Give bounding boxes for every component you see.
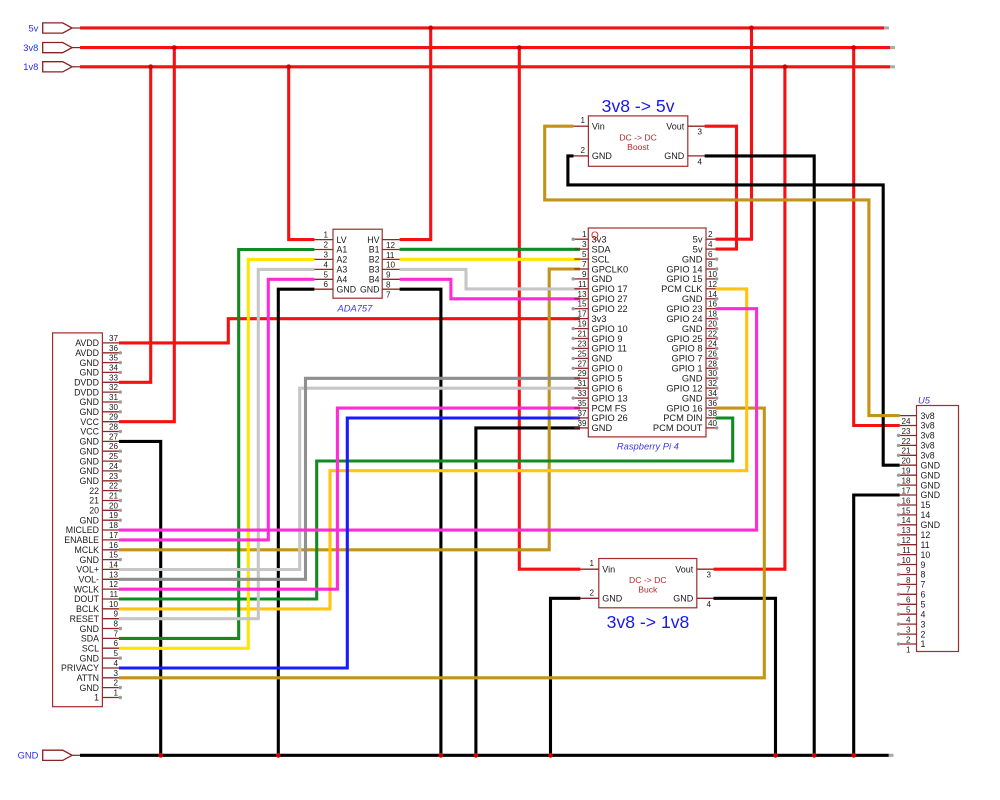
svg-text:2: 2: [906, 635, 911, 644]
svg-text:4: 4: [921, 609, 926, 619]
wire RPi GPIO 23 pin 16 to MICLED: [119, 309, 757, 530]
svg-text:3: 3: [582, 240, 587, 249]
svg-text:Vout: Vout: [666, 122, 685, 132]
wire ADA757 GND pin 7 to GND rail: [400, 289, 441, 755]
svg-text:3v8: 3v8: [921, 411, 935, 421]
svg-text:7: 7: [386, 291, 391, 300]
svg-text:GPIO 25: GPIO 25: [666, 334, 702, 344]
svg-text:18: 18: [901, 477, 911, 486]
svg-text:5: 5: [906, 606, 911, 615]
svg-text:3: 3: [707, 571, 712, 580]
svg-text:30: 30: [708, 369, 718, 378]
svg-text:2: 2: [708, 230, 713, 239]
wire ADA757 GND pin 6 to GND rail: [278, 289, 314, 755]
svg-text:4: 4: [113, 659, 118, 668]
svg-text:1v8: 1v8: [23, 62, 38, 72]
svg-text:MCLK: MCLK: [75, 545, 100, 555]
power symbol GND: [18, 750, 81, 760]
svg-text:1: 1: [582, 230, 587, 239]
svg-text:23: 23: [577, 339, 587, 348]
svg-text:GND: GND: [592, 423, 613, 433]
svg-text:Boost: Boost: [627, 142, 650, 152]
svg-text:5v: 5v: [28, 23, 38, 33]
svg-text:6: 6: [323, 280, 328, 289]
svg-text:5v: 5v: [693, 235, 703, 245]
svg-text:GND: GND: [79, 456, 99, 466]
svg-text:10: 10: [901, 556, 911, 565]
svg-text:13: 13: [109, 570, 119, 579]
svg-text:1: 1: [589, 559, 594, 568]
svg-text:37: 37: [577, 409, 587, 418]
svg-text:AVDD: AVDD: [75, 348, 99, 358]
svg-text:34: 34: [708, 389, 718, 398]
svg-text:PCM CLK: PCM CLK: [661, 284, 703, 294]
svg-text:19: 19: [109, 511, 119, 520]
svg-text:SDA: SDA: [592, 244, 612, 254]
svg-text:B4: B4: [369, 275, 380, 285]
svg-text:Vout: Vout: [675, 565, 694, 575]
svg-text:1: 1: [323, 231, 328, 240]
wire RPi GPIO 6 pin 31 to VOL+: [119, 388, 580, 569]
svg-text:27: 27: [577, 359, 587, 368]
wire 5v rail: [80, 26, 889, 29]
svg-text:3: 3: [113, 669, 118, 678]
svg-text:32: 32: [708, 379, 718, 388]
svg-text:28: 28: [708, 359, 718, 368]
svg-text:15: 15: [109, 551, 119, 560]
svg-text:3: 3: [323, 250, 328, 259]
wire ADA757 B2 to RPi SCL pin 5: [400, 258, 580, 261]
svg-text:33: 33: [577, 389, 587, 398]
svg-text:MICLED: MICLED: [66, 525, 99, 535]
wire ADA757 A3 to left connector RESET pin 9: [119, 269, 314, 618]
svg-text:GND: GND: [360, 284, 380, 294]
wire 5v to ADA757 HV pin 12: [400, 28, 431, 240]
svg-text:PRIVACY: PRIVACY: [61, 663, 99, 673]
svg-text:GND: GND: [682, 393, 703, 403]
wire AVDD to RPi 3v3 pin 17: [119, 319, 580, 343]
svg-text:GND: GND: [79, 683, 99, 693]
svg-text:PCM DIN: PCM DIN: [663, 413, 702, 423]
svg-text:GPIO 9: GPIO 9: [592, 334, 623, 344]
svg-text:15: 15: [901, 506, 911, 515]
svg-text:21: 21: [901, 447, 911, 456]
svg-text:GND: GND: [602, 594, 623, 604]
svg-text:2: 2: [323, 241, 328, 250]
wire 1v8 to buck Vout pin 3: [714, 67, 785, 569]
svg-text:GND: GND: [682, 374, 703, 384]
svg-text:22: 22: [901, 437, 911, 446]
svg-text:9: 9: [113, 610, 118, 619]
svg-text:2: 2: [113, 679, 118, 688]
svg-text:GPIO 23: GPIO 23: [666, 304, 702, 314]
svg-text:Buck: Buck: [638, 585, 658, 595]
svg-text:5: 5: [582, 250, 587, 259]
svg-text:20: 20: [901, 457, 911, 466]
svg-text:24: 24: [708, 339, 718, 348]
svg-text:ATTN: ATTN: [77, 673, 99, 683]
svg-text:3v3: 3v3: [592, 314, 607, 324]
svg-text:4: 4: [707, 600, 712, 609]
svg-text:11: 11: [110, 590, 119, 599]
svg-text:GND: GND: [79, 624, 99, 634]
svg-text:8: 8: [386, 281, 391, 290]
wire RPi PCM DIN pin 38 to DOUT: [119, 418, 733, 599]
svg-text:GND: GND: [79, 407, 99, 417]
svg-text:9: 9: [386, 271, 391, 280]
svg-text:12: 12: [901, 536, 911, 545]
svg-text:GND: GND: [79, 476, 99, 486]
svg-text:Raspberry Pi 4: Raspberry Pi 4: [617, 441, 679, 452]
svg-text:GND: GND: [921, 460, 941, 470]
svg-text:21: 21: [109, 492, 119, 501]
level shifter U? ADA757: [314, 229, 399, 313]
svg-text:7: 7: [906, 586, 911, 595]
connector J1 (microphone header, pins 1-37): [53, 333, 122, 707]
svg-text:GND: GND: [664, 151, 685, 161]
svg-text:14: 14: [708, 290, 718, 299]
svg-text:18: 18: [109, 521, 119, 530]
wire GND rail: [80, 754, 894, 757]
power symbol 3v8: [23, 43, 81, 53]
svg-text:25: 25: [577, 349, 587, 358]
svg-text:GND: GND: [79, 466, 99, 476]
svg-text:LV: LV: [337, 235, 347, 245]
svg-text:11: 11: [386, 251, 395, 260]
svg-text:12: 12: [921, 530, 931, 540]
wire 3v8 to U5 pin 23: [854, 48, 900, 426]
svg-text:SCL: SCL: [82, 644, 99, 654]
wire boost GND pin 4 to GND rail: [705, 156, 815, 755]
svg-text:40: 40: [708, 419, 718, 428]
svg-text:GPIO 22: GPIO 22: [592, 304, 628, 314]
svg-text:GND: GND: [592, 151, 613, 161]
svg-text:GPIO 14: GPIO 14: [666, 264, 702, 274]
svg-text:PCM DOUT: PCM DOUT: [653, 423, 703, 433]
svg-text:4: 4: [906, 616, 911, 625]
wire boost Vout to RPi pin 4: [705, 126, 737, 249]
svg-text:GND: GND: [921, 470, 941, 480]
svg-text:1: 1: [580, 116, 585, 125]
svg-text:26: 26: [109, 442, 119, 451]
svg-text:17: 17: [901, 486, 911, 495]
wire 1v8 to left connector DVDD pin 33: [119, 67, 151, 383]
svg-text:7: 7: [113, 629, 118, 638]
svg-text:DVDD: DVDD: [74, 378, 99, 388]
svg-text:6: 6: [113, 639, 118, 648]
svg-text:B2: B2: [369, 255, 380, 265]
svg-text:2: 2: [589, 588, 594, 597]
svg-text:GND: GND: [79, 653, 99, 663]
svg-text:21: 21: [89, 496, 99, 506]
svg-text:13: 13: [577, 290, 587, 299]
svg-text:GND: GND: [18, 751, 39, 761]
svg-text:26: 26: [708, 349, 718, 358]
Raspberry Pi 4 (40-pin header): [572, 228, 719, 452]
svg-text:20: 20: [89, 506, 99, 516]
svg-text:11: 11: [578, 280, 587, 289]
svg-text:4: 4: [708, 240, 713, 249]
svg-text:14: 14: [109, 560, 119, 569]
svg-text:25: 25: [109, 452, 119, 461]
svg-text:GND: GND: [79, 397, 99, 407]
svg-text:GND: GND: [921, 490, 941, 500]
connector U5 (battery/power header, pins 1-24): [897, 395, 959, 655]
wire boost GND pin 2 to U5 GND pin 19: [568, 156, 900, 465]
wire 1v8 rail: [80, 65, 895, 68]
svg-text:AVDD: AVDD: [75, 338, 99, 348]
svg-text:31: 31: [109, 393, 119, 402]
svg-text:16: 16: [901, 496, 911, 505]
svg-text:GPIO 12: GPIO 12: [666, 383, 702, 393]
svg-text:ENABLE: ENABLE: [64, 535, 99, 545]
svg-text:Vin: Vin: [602, 565, 615, 575]
svg-text:33: 33: [109, 373, 119, 382]
svg-text:GPIO 0: GPIO 0: [592, 364, 623, 374]
svg-text:8: 8: [921, 570, 926, 580]
svg-text:VOL-: VOL-: [78, 575, 99, 585]
svg-text:4: 4: [323, 260, 328, 269]
svg-text:1: 1: [94, 693, 99, 703]
svg-text:38: 38: [708, 409, 718, 418]
svg-text:B3: B3: [369, 265, 380, 275]
svg-text:14: 14: [901, 516, 911, 525]
svg-text:23: 23: [901, 427, 911, 436]
DC-DC buck module (3v8 to 1v8): [580, 559, 713, 633]
svg-text:32: 32: [109, 383, 119, 392]
svg-text:15: 15: [577, 300, 587, 309]
svg-text:GND: GND: [592, 354, 613, 364]
svg-text:GND: GND: [79, 358, 99, 368]
svg-text:12: 12: [386, 241, 396, 250]
svg-text:22: 22: [89, 486, 99, 496]
svg-text:3v8: 3v8: [23, 43, 38, 53]
svg-text:3v8 -> 1v8: 3v8 -> 1v8: [607, 612, 690, 632]
svg-text:GND: GND: [79, 368, 99, 378]
svg-text:4: 4: [698, 157, 703, 166]
svg-text:17: 17: [577, 310, 587, 319]
wire RPi PCM CLK pin 12 to BCLK: [119, 289, 747, 609]
svg-text:5: 5: [921, 600, 926, 610]
wire 3v8 rail: [80, 46, 895, 49]
power symbol 1v8: [23, 62, 81, 72]
svg-text:10: 10: [109, 600, 119, 609]
svg-text:DC -> DC: DC -> DC: [629, 575, 666, 585]
svg-text:5: 5: [113, 649, 118, 658]
svg-text:2: 2: [580, 146, 585, 155]
wire 5v to RPi pin 2: [716, 28, 752, 239]
svg-text:10: 10: [921, 550, 931, 560]
svg-text:21: 21: [577, 330, 587, 339]
svg-text:1: 1: [921, 639, 926, 649]
svg-text:2: 2: [921, 629, 926, 639]
svg-text:36: 36: [109, 344, 119, 353]
wire ADA757 A4 to left connector ENABLE pin 17: [119, 279, 314, 540]
svg-text:8: 8: [708, 260, 713, 269]
svg-text:Q: Q: [591, 231, 599, 242]
svg-text:GPCLK0: GPCLK0: [592, 264, 629, 274]
svg-text:3: 3: [698, 128, 703, 137]
svg-text:1: 1: [906, 645, 911, 654]
svg-text:GND: GND: [921, 520, 941, 530]
svg-text:VCC: VCC: [80, 427, 99, 437]
svg-text:GPIO 27: GPIO 27: [592, 294, 628, 304]
svg-text:7: 7: [921, 580, 926, 590]
svg-text:39: 39: [577, 419, 587, 428]
svg-text:GND: GND: [337, 284, 357, 294]
svg-text:GND: GND: [682, 324, 703, 334]
wire buck GND pin 4 to GND rail: [714, 598, 776, 755]
svg-text:8: 8: [906, 576, 911, 585]
svg-text:GPIO 11: GPIO 11: [592, 344, 627, 354]
svg-text:16: 16: [109, 541, 119, 550]
DC-DC boost module (3v8 to 5v): [574, 96, 705, 166]
svg-text:3: 3: [921, 619, 926, 629]
svg-text:35: 35: [109, 354, 119, 363]
svg-text:9: 9: [906, 566, 911, 575]
svg-text:GND: GND: [673, 594, 694, 604]
svg-text:22: 22: [708, 330, 718, 339]
svg-text:30: 30: [109, 403, 119, 412]
svg-text:GPIO 6: GPIO 6: [592, 383, 623, 393]
wire ADA757 B1 to RPi SDA pin 3: [400, 248, 580, 251]
svg-text:11: 11: [921, 540, 930, 550]
svg-text:DC -> DC: DC -> DC: [619, 133, 656, 143]
svg-text:GPIO 13: GPIO 13: [592, 393, 628, 403]
svg-text:29: 29: [577, 369, 587, 378]
wire buck GND pin 2 to GND rail: [551, 598, 581, 755]
svg-text:9: 9: [582, 270, 587, 279]
svg-text:GND: GND: [79, 437, 99, 447]
svg-text:9: 9: [921, 560, 926, 570]
svg-text:3v8: 3v8: [921, 451, 935, 461]
svg-text:GND: GND: [682, 254, 703, 264]
svg-text:28: 28: [109, 423, 119, 432]
svg-text:10: 10: [386, 261, 396, 270]
svg-text:37: 37: [109, 334, 119, 343]
svg-text:20: 20: [109, 501, 119, 510]
wire left connector GND pin 27 to GND rail: [119, 441, 161, 755]
svg-text:GND: GND: [79, 555, 99, 565]
svg-text:3: 3: [906, 625, 911, 634]
wire RPi GPIO 5 pin 29 to VOL-: [119, 378, 580, 579]
svg-text:GND: GND: [79, 515, 99, 525]
svg-text:GPIO 16: GPIO 16: [666, 403, 702, 413]
svg-text:SDA: SDA: [81, 634, 99, 644]
wire ADA757 A1 to left connector SDA pin 7: [119, 250, 314, 639]
svg-text:HV: HV: [367, 235, 379, 245]
svg-text:U5: U5: [918, 395, 931, 406]
wire RPi GPIO 26 pin 37 to PRIVACY: [119, 418, 580, 668]
svg-text:WCLK: WCLK: [74, 584, 100, 594]
svg-text:GPIO 5: GPIO 5: [592, 374, 623, 384]
wire 3v8 to buck Vin pin 1: [519, 48, 580, 570]
svg-text:7: 7: [582, 260, 587, 269]
svg-text:A2: A2: [337, 255, 348, 265]
wire 1v8 to ADA757 LV pin 1: [289, 67, 315, 240]
svg-text:6: 6: [921, 590, 926, 600]
svg-text:DVDD: DVDD: [74, 387, 99, 397]
svg-text:14: 14: [921, 510, 931, 520]
wire U5 GND pin 16 to GND rail: [854, 495, 900, 755]
svg-text:GND: GND: [682, 294, 703, 304]
power symbol 5v: [28, 23, 81, 33]
svg-text:VCC: VCC: [80, 417, 99, 427]
svg-text:8: 8: [113, 620, 118, 629]
svg-text:3v8 -> 5v: 3v8 -> 5v: [602, 96, 675, 116]
svg-text:24: 24: [901, 417, 911, 426]
svg-text:13: 13: [901, 526, 911, 535]
svg-text:16: 16: [708, 300, 718, 309]
svg-text:18: 18: [708, 310, 718, 319]
svg-text:GPIO 26: GPIO 26: [592, 413, 628, 423]
svg-text:3v8: 3v8: [921, 421, 935, 431]
svg-text:15: 15: [921, 500, 931, 510]
svg-text:34: 34: [109, 363, 119, 372]
svg-text:GPIO 15: GPIO 15: [666, 274, 702, 284]
svg-text:GND: GND: [921, 480, 941, 490]
svg-text:23: 23: [109, 472, 119, 481]
svg-text:GND: GND: [592, 274, 613, 284]
svg-text:A1: A1: [337, 245, 348, 255]
svg-text:6: 6: [708, 250, 713, 259]
svg-text:12: 12: [109, 580, 119, 589]
svg-text:17: 17: [109, 531, 119, 540]
svg-text:5: 5: [323, 270, 328, 279]
svg-text:6: 6: [906, 596, 911, 605]
svg-text:35: 35: [577, 399, 587, 408]
svg-text:19: 19: [577, 320, 587, 329]
wire RPi PCM FS pin 35 to WCLK: [119, 408, 580, 589]
svg-text:31: 31: [577, 379, 587, 388]
svg-text:GPIO 17: GPIO 17: [592, 284, 628, 294]
svg-text:1: 1: [113, 689, 118, 698]
svg-text:GPIO 7: GPIO 7: [671, 354, 702, 364]
wire ADA757 B3 to RPi GPIO 17 pin 11: [400, 269, 580, 289]
svg-text:PCM FS: PCM FS: [592, 403, 627, 413]
wire RPi GPIO 16 pin 36 to ATTN: [119, 408, 764, 678]
svg-text:GND: GND: [79, 446, 99, 456]
svg-text:ADA757: ADA757: [336, 303, 373, 314]
wire boost Vin to U5 pin 24 (3v8): [545, 126, 900, 415]
svg-text:27: 27: [109, 432, 119, 441]
svg-text:5v: 5v: [693, 244, 703, 254]
svg-text:36: 36: [708, 399, 718, 408]
svg-text:3v8: 3v8: [921, 441, 935, 451]
svg-text:Vin: Vin: [592, 122, 605, 132]
svg-text:A4: A4: [337, 275, 348, 285]
svg-text:12: 12: [708, 280, 718, 289]
svg-text:SCL: SCL: [592, 254, 610, 264]
svg-text:GPIO 1: GPIO 1: [671, 364, 702, 374]
svg-text:GPIO 8: GPIO 8: [671, 344, 702, 354]
svg-text:19: 19: [901, 467, 911, 476]
svg-text:22: 22: [109, 482, 119, 491]
svg-text:A3: A3: [337, 265, 348, 275]
wire RPi GND pin 39 to GND rail: [476, 428, 580, 755]
svg-text:24: 24: [109, 462, 119, 471]
svg-text:VOL+: VOL+: [76, 565, 99, 575]
svg-text:GPIO 24: GPIO 24: [666, 314, 702, 324]
svg-text:RESET: RESET: [70, 614, 100, 624]
wire RPi GPCLK0 pin 7 to MCLK: [119, 269, 580, 550]
svg-text:10: 10: [708, 270, 718, 279]
wire ADA757 A2 to left connector SCL pin 6: [119, 259, 314, 648]
svg-text:11: 11: [902, 546, 911, 555]
svg-text:GPIO 10: GPIO 10: [592, 324, 628, 334]
svg-text:20: 20: [708, 320, 718, 329]
svg-text:3v8: 3v8: [921, 431, 935, 441]
